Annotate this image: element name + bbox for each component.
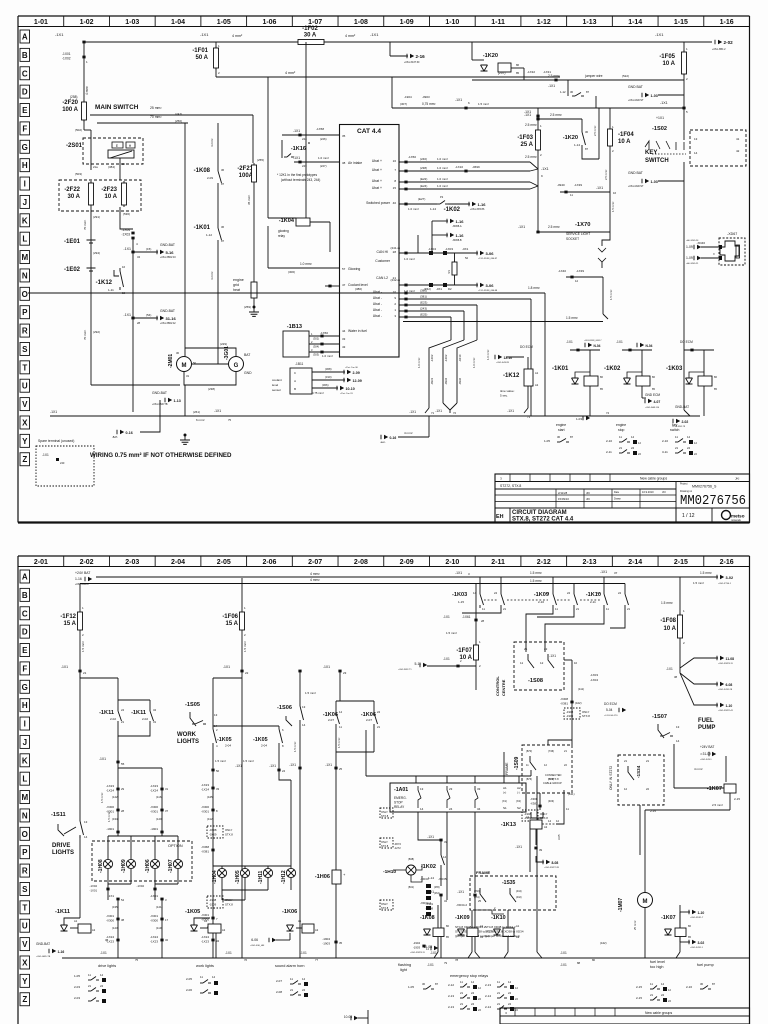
svg-text:13: 13 (676, 725, 680, 729)
wire sheet2 bottom bus (62, 957, 749, 959)
svg-text:FRAME: FRAME (505, 762, 509, 775)
svg-text:2.5 mm²: 2.5 mm² (604, 170, 608, 180)
svg-text:87: 87 (712, 982, 716, 986)
svg-text:1.0 mm²: 1.0 mm² (318, 156, 329, 160)
svg-text:(-): (-) (517, 791, 520, 795)
svg-text:2-05: 2-05 (186, 977, 192, 981)
svg-text:2-12: 2-12 (448, 983, 454, 987)
svg-text:5-16: 5-16 (166, 250, 175, 255)
svg-text:A: A (294, 379, 296, 383)
svg-text:-1S06: -1S06 (277, 705, 292, 711)
svg-text:14: 14 (443, 855, 447, 859)
svg-text:34: 34 (137, 255, 141, 259)
svg-text:-1K12: -1K12 (503, 373, 520, 379)
svg-text:-0903: -0903 (422, 95, 430, 99)
svg-text:21: 21 (83, 671, 87, 675)
arrow 6-06 (272, 938, 276, 942)
svg-text:24: 24 (567, 591, 571, 595)
terminal -1X1 24 (278, 746, 280, 770)
svg-text:-1X1: -1X1 (507, 409, 514, 413)
svg-text:22: 22 (544, 647, 548, 651)
svg-text:-1X1: -1X1 (548, 84, 555, 88)
svg-text:33: 33 (342, 337, 346, 341)
svg-text:-1K05: -1K05 (253, 737, 268, 743)
svg-text:2-13: 2-13 (448, 994, 454, 998)
svg-text:(226): (226) (320, 137, 327, 141)
svg-text:-1X1: -1X1 (293, 156, 300, 160)
svg-text:(536): (536) (123, 212, 130, 216)
svg-text:-1H09: -1H09 (121, 859, 127, 873)
svg-text:1-13: 1-13 (174, 399, 181, 403)
svg-text:21: 21 (675, 446, 679, 450)
svg-text:-1X10: -1X10 (455, 165, 463, 169)
svg-text:-2F22: -2F22 (64, 187, 80, 193)
bottom partial title block (500, 1008, 750, 1024)
svg-text:B: B (22, 591, 28, 600)
svg-text:(445): (445) (207, 795, 214, 799)
svg-text:12: 12 (575, 279, 579, 283)
svg-text:1-05: 1-05 (544, 439, 550, 443)
svg-text:C: C (294, 371, 296, 375)
svg-text:A1: A1 (74, 919, 78, 923)
svg-text:-1X1: -1X1 (293, 129, 300, 133)
svg-text:30 A: 30 A (304, 33, 317, 39)
svg-text:R: R (22, 867, 28, 876)
svg-text:engine: engine (556, 423, 566, 427)
svg-text:2-14: 2-14 (485, 994, 491, 998)
wire top bus1 (96, 576, 680, 578)
svg-text:+Pot. Circ.30: +Pot. Circ.30 (345, 366, 358, 369)
svg-text:(306): (306) (322, 383, 329, 387)
svg-text:MM0276756: MM0276756 (680, 494, 746, 509)
svg-text:2-16: 2-16 (686, 985, 692, 989)
svg-text:(307): (307) (400, 102, 407, 106)
svg-text:Spare terminal (unused): Spare terminal (unused) (38, 439, 74, 443)
svg-text:-1X23: -1X23 (106, 784, 114, 788)
svg-text:30: 30 (557, 435, 561, 439)
svg-text:2-14: 2-14 (628, 559, 642, 566)
svg-text:-1A01: -1A01 (394, 787, 408, 793)
svg-text:-1X1: -1X1 (269, 764, 276, 768)
svg-text:-1X24: -1X24 (201, 788, 209, 792)
svg-text:11: 11 (606, 607, 609, 611)
svg-text:-XD35: -XD35 (438, 877, 447, 881)
svg-text:(116): (116) (156, 795, 162, 799)
lamp bottom ties (108, 883, 131, 885)
svg-text:DO ECM: DO ECM (520, 345, 533, 349)
wire 70mm y123 (97, 122, 188, 124)
svg-text:2.5 mm²: 2.5 mm² (525, 155, 537, 159)
svg-text:F: F (22, 664, 27, 673)
svg-text:M: M (643, 899, 648, 905)
svg-text:31: 31 (186, 374, 190, 378)
svg-text:-1X1: -1X1 (655, 32, 664, 37)
svg-text:36: 36 (221, 225, 225, 229)
svg-text:(E27): (E27) (418, 197, 425, 201)
ECU box CAT 4.4 (340, 125, 400, 358)
svg-text:2-09: 2-09 (353, 371, 360, 375)
svg-text:(E25): (E25) (420, 313, 427, 317)
svg-text:STX.8: STX.8 (381, 814, 389, 818)
svg-text:31-16: 31-16 (166, 316, 177, 321)
svg-text:2-03: 2-03 (74, 985, 80, 989)
svg-text:14: 14 (676, 739, 680, 743)
arrow 8-08 low (536, 856, 544, 862)
svg-text:1.5 mm²: 1.5 mm² (446, 631, 457, 635)
svg-text:-1X1: -1X1 (61, 665, 68, 669)
svg-text:ST272, STX.8: ST272, STX.8 (500, 484, 521, 488)
svg-text:-1K08: -1K08 (420, 915, 435, 921)
svg-text:-1S34: -1S34 (636, 765, 641, 778)
svg-text:JKI: JKI (586, 491, 590, 495)
svg-text:Y: Y (22, 977, 28, 986)
svg-text:-XD34.2: -XD34.2 (456, 903, 467, 907)
wire k06 pair bottom (335, 727, 337, 770)
svg-text:2-04: 2-04 (225, 744, 231, 748)
svg-text:14: 14 (84, 835, 88, 839)
svg-text:-X381: -X381 (201, 850, 209, 854)
svg-text:(403): (403) (548, 799, 554, 803)
svg-text:-1X24: -1X24 (201, 935, 209, 939)
svg-text:+0S1-XT50:1: +0S1-XT50:1 (718, 583, 732, 585)
svg-text:1.8 mm²: 1.8 mm² (528, 286, 540, 290)
svg-text:10 A: 10 A (664, 626, 677, 632)
svg-text:-1X1: -1X1 (455, 571, 462, 575)
svg-text:11: 11 (339, 725, 342, 729)
svg-text:-1X02: -1X02 (137, 884, 145, 888)
svg-text:S2: S2 (517, 806, 521, 810)
svg-text:N-04: N-04 (646, 344, 653, 348)
wire ubat- drops (544, 293, 546, 416)
svg-text:(259): (259) (244, 305, 251, 309)
svg-text:-1X50: -1X50 (408, 155, 416, 159)
svg-text:22: 22 (245, 671, 249, 675)
svg-text:2.5 mm²: 2.5 mm² (712, 803, 723, 807)
svg-text:-0X72: -0X72 (394, 842, 401, 846)
svg-text:-1909: -1909 (209, 903, 217, 907)
svg-text:(380): (380) (420, 289, 427, 293)
wire jumper y80 (472, 79, 684, 81)
only stx8 tag b (207, 896, 223, 908)
svg-text:14: 14 (339, 710, 343, 714)
svg-text:1-03: 1-03 (125, 19, 139, 26)
svg-text:C: C (22, 609, 28, 618)
svg-text:-X308: -X308 (426, 907, 434, 911)
svg-text:2-13: 2-13 (582, 559, 596, 566)
svg-text:16: 16 (613, 191, 617, 195)
svg-text:-0X08: -0X08 (209, 828, 217, 832)
svg-text:35 mm²: 35 mm² (247, 195, 251, 205)
svg-text:-1X03: -1X03 (590, 673, 598, 677)
svg-text:ONLY: ONLY (381, 840, 388, 844)
svg-text:-X308: -X308 (560, 697, 568, 701)
svg-text:New cable groups: New cable groups (640, 477, 667, 481)
wire k13 right (556, 806, 564, 824)
svg-text:-1S02: -1S02 (652, 126, 667, 132)
svg-text:24: 24 (471, 1002, 475, 1006)
svg-text:-1K07: -1K07 (661, 915, 676, 921)
svg-text:-1X1: -1X1 (42, 453, 49, 457)
svg-text:36: 36 (221, 168, 225, 172)
svg-text:30: 30 (585, 130, 589, 134)
svg-text:(jumper to unused socket): (jumper to unused socket) (485, 934, 520, 938)
svg-text:STX.8: STX.8 (381, 844, 389, 848)
svg-text:-1X1: -1X1 (515, 845, 522, 849)
svg-text:-2F20: -2F20 (62, 100, 78, 106)
svg-text:4 mm²: 4 mm² (85, 86, 89, 95)
svg-text:-1X1: -1X1 (435, 409, 442, 413)
svg-text:21: 21 (497, 1002, 501, 1006)
svg-text:GND-BAT: GND-BAT (160, 309, 175, 313)
svg-text:(876): (876) (526, 777, 532, 781)
svg-text:-1X1: -1X1 (518, 225, 525, 229)
svg-text:(441): (441) (568, 792, 575, 796)
svg-text:14: 14 (212, 975, 216, 979)
svg-text:-BAT-: -BAT- (380, 441, 386, 444)
svg-text:2/11/28: 2/11/28 (558, 491, 568, 495)
svg-text:13: 13 (694, 137, 698, 141)
svg-text:Date: Date (614, 491, 620, 494)
svg-text:(304): (304) (313, 345, 319, 349)
svg-text:work lights: work lights (196, 964, 214, 968)
svg-text:too high: too high (650, 965, 664, 969)
svg-text:+0 S1-S0:170: +0 S1-S0:170 (604, 715, 618, 717)
svg-text:0-16: 0-16 (390, 436, 397, 440)
svg-text:BAT: BAT (244, 353, 250, 357)
svg-text:-1S09: -1S09 (514, 756, 520, 770)
only stx8 small box low (522, 810, 538, 821)
svg-text:25: 25 (478, 899, 482, 903)
svg-text:24: 24 (121, 708, 125, 712)
svg-text:(X2): (X2) (516, 799, 521, 803)
svg-text:-1X03: -1X03 (121, 233, 130, 237)
svg-text:JKI: JKI (662, 490, 666, 494)
svg-text:I: I (24, 180, 26, 189)
svg-text:1-14: 1-14 (430, 207, 436, 211)
svg-text:T: T (22, 903, 27, 912)
svg-text:-XD46: -XD46 (696, 241, 705, 245)
svg-text:-1K02: -1K02 (604, 366, 621, 372)
svg-text:30: 30 (700, 982, 704, 986)
svg-text:87: 87 (586, 90, 590, 94)
svg-text:-1K05: -1K05 (217, 737, 232, 743)
svg-text:-1K01: -1K01 (194, 225, 211, 231)
svg-text:A1: A1 (204, 919, 208, 923)
svg-text:H: H (22, 161, 28, 170)
svg-text:4 mm²: 4 mm² (404, 431, 413, 435)
svg-text:SERVICE LIGHT: SERVICE LIGHT (566, 232, 590, 236)
svg-text:Ubat -: Ubat - (373, 302, 382, 306)
svg-text:S1: S1 (503, 806, 507, 810)
svg-text:2.5 mm²: 2.5 mm² (548, 225, 560, 229)
svg-text:-1X50: -1X50 (320, 331, 328, 335)
svg-text:1-05: 1-05 (74, 974, 80, 978)
svg-text:-1X1: -1X1 (541, 167, 549, 171)
svg-text:2-07: 2-07 (328, 718, 334, 722)
svg-text:4 mm²: 4 mm² (285, 71, 296, 75)
svg-text:1.5 mm²: 1.5 mm² (478, 102, 489, 106)
svg-text:Ubat -: Ubat - (373, 308, 382, 312)
svg-text:37: 37 (165, 809, 169, 813)
svg-text:+0S1-XD31:7: +0S1-XD31:7 (690, 917, 704, 919)
svg-text:-1X1: -1X1 (443, 657, 450, 661)
svg-text:1-15: 1-15 (458, 600, 464, 604)
svg-text:New cable groups: New cable groups (645, 1011, 672, 1015)
svg-text:-1K03: -1K03 (666, 366, 683, 372)
svg-text:12: 12 (540, 661, 544, 665)
svg-text:-1K16: -1K16 (291, 146, 306, 152)
svg-text:2.5 mm²: 2.5 mm² (525, 123, 537, 127)
svg-text:Ubat -: Ubat - (373, 296, 382, 300)
svg-text:-1M07: -1M07 (618, 898, 624, 912)
svg-text:-1909: -1909 (566, 714, 574, 718)
svg-text:-1K06: -1K06 (282, 909, 297, 915)
svg-text:+0S1-W32:T1: +0S1-W32:T1 (398, 669, 412, 671)
arrow 3-02 top (720, 575, 724, 579)
svg-text:75: 75 (228, 418, 232, 422)
svg-text:2-13: 2-13 (448, 1005, 454, 1009)
wires a01 top (366, 775, 531, 777)
svg-text:2-02: 2-02 (682, 420, 689, 424)
svg-text:57: 57 (342, 267, 346, 271)
svg-text:CENTRE: CENTRE (501, 679, 506, 696)
svg-text:*: * (308, 142, 310, 148)
svg-text:3-11: 3-11 (662, 450, 668, 454)
svg-text:+0S1-XW23:11: +0S1-XW23:11 (410, 952, 426, 954)
svg-text:-1E02: -1E02 (64, 267, 81, 273)
svg-text:6 mm²: 6 mm² (196, 418, 205, 422)
svg-text:21: 21 (460, 1002, 464, 1006)
svg-text:(255): (255) (257, 158, 264, 162)
svg-text:40: 40 (393, 201, 397, 205)
svg-text:(E23): (E23) (420, 301, 427, 305)
svg-text:25: 25 (339, 767, 343, 771)
svg-text:-1S11: -1S11 (51, 812, 66, 818)
svg-text:-1X1: -1X1 (200, 32, 209, 37)
switch -2S01 dashed box (83, 138, 143, 164)
svg-text:ST272/ST3.8: XD38 to XD34: ST272/ST3.8: XD38 to XD34 (485, 930, 524, 934)
svg-text:4 mm²: 4 mm² (210, 272, 214, 281)
switch -1S08 box (514, 642, 564, 690)
svg-text:71: 71 (431, 411, 435, 415)
svg-text:DO ECM: DO ECM (604, 702, 617, 706)
svg-text:-1903: -1903 (322, 942, 330, 946)
relay contact -1K05 b (213, 725, 279, 727)
svg-text:jumper wire: jumper wire (584, 74, 603, 78)
svg-text:-1X70: -1X70 (575, 222, 590, 228)
svg-text:A1: A1 (298, 919, 302, 923)
svg-text:-1K07: -1K07 (707, 786, 722, 792)
svg-text:-1901: -1901 (106, 827, 114, 831)
svg-text:100 A: 100 A (62, 107, 78, 113)
svg-text:-1X1: -1X1 (108, 894, 115, 898)
svg-text:1.5 mm²: 1.5 mm² (293, 742, 297, 752)
svg-text:1-02: 1-02 (80, 19, 94, 26)
svg-text:ONLY: ONLY (225, 828, 233, 832)
svg-text:-XD88-B: -XD88-B (452, 239, 462, 242)
svg-text:flashing: flashing (398, 963, 411, 967)
svg-text:-2F23: -2F23 (101, 187, 117, 193)
svg-text:A2: A2 (222, 928, 226, 932)
svg-text:8-08: 8-08 (552, 861, 559, 865)
svg-text:10-10: 10-10 (346, 387, 355, 391)
svg-text:A1: A1 (516, 924, 520, 928)
svg-text:-X300: -X300 (201, 805, 209, 809)
svg-text:Ubat +: Ubat + (372, 168, 382, 172)
svg-text:1-12: 1-12 (560, 90, 566, 94)
wire ubat+ harness (399, 161, 530, 163)
svg-text:-1X01: -1X01 (62, 52, 71, 56)
svg-text:STX.8: STX.8 (381, 906, 389, 910)
svg-text:1.5 mm²: 1.5 mm² (611, 202, 615, 212)
svg-text:2-13: 2-13 (485, 983, 491, 987)
svg-text:-0932: -0932 (444, 377, 448, 385)
wire bottom bus -1X1 (50, 415, 700, 417)
svg-text:A2: A2 (92, 928, 96, 932)
arrow 0-16 left (140, 416, 160, 432)
svg-text:-1X1: -1X1 (214, 409, 221, 413)
svg-text:+0S1-GND:ST: +0S1-GND:ST (628, 99, 644, 102)
svg-text:(381): (381) (420, 295, 427, 299)
svg-text:-1X1: -1X1 (300, 951, 307, 955)
svg-text:NS: NS (447, 270, 451, 274)
svg-text:2-02: 2-02 (724, 40, 734, 45)
svg-text:2-16: 2-16 (720, 559, 734, 566)
svg-text:engine: engine (616, 423, 626, 427)
svg-text:(831): (831) (408, 885, 414, 889)
wire ubat- harness (399, 292, 545, 294)
svg-text:13: 13 (302, 705, 306, 709)
svg-text:fuel pump: fuel pump (697, 963, 714, 967)
svg-text:12-09: 12-09 (353, 379, 362, 383)
svg-text:-1X24: -1X24 (106, 789, 114, 793)
svg-text:K: K (22, 756, 28, 765)
svg-text:-1K03: -1K03 (452, 592, 467, 598)
svg-text:1 / 12: 1 / 12 (682, 513, 695, 519)
wire -2F23 down to terminal col (120, 207, 133, 229)
svg-text:2-16: 2-16 (416, 54, 426, 59)
svg-text:3-02: 3-02 (726, 576, 734, 580)
svg-text:30: 30 (176, 351, 180, 355)
svg-text:-X301: -X301 (201, 810, 209, 814)
svg-text:-1K11: -1K11 (99, 710, 114, 716)
svg-text:34: 34 (477, 807, 481, 811)
svg-text:-1K04: -1K04 (279, 218, 295, 224)
svg-text:CABLE GROUP: CABLE GROUP (543, 781, 562, 785)
svg-text:30: 30 (570, 90, 574, 94)
svg-text:24: 24 (449, 807, 453, 811)
svg-text:ONLY: ONLY (381, 902, 388, 906)
svg-text:(261): (261) (474, 896, 480, 899)
svg-text:T: T (22, 363, 27, 372)
svg-text:1.0 mm²: 1.0 mm² (437, 157, 448, 161)
svg-text:1-11: 1-11 (108, 288, 114, 292)
svg-text:M: M (21, 793, 28, 802)
svg-text:2-09: 2-09 (207, 176, 213, 180)
svg-text:1.5 mm²: 1.5 mm² (693, 581, 704, 585)
svg-text:+0S1-S30_HN: +0S1-S30_HN (250, 945, 265, 947)
svg-text:4 mm²: 4 mm² (232, 34, 243, 38)
svg-text:JKI: JKI (735, 477, 740, 481)
svg-text:1.5 mm²: 1.5 mm² (530, 579, 542, 583)
svg-text:21: 21 (624, 759, 628, 763)
svg-text:DRIVE: DRIVE (52, 843, 70, 849)
svg-text:1-14: 1-14 (628, 19, 642, 26)
svg-text:GND-BAT: GND-BAT (675, 405, 689, 409)
svg-text:21: 21 (377, 725, 381, 729)
svg-text:2-10: 2-10 (538, 600, 544, 604)
svg-text:14: 14 (302, 723, 306, 727)
